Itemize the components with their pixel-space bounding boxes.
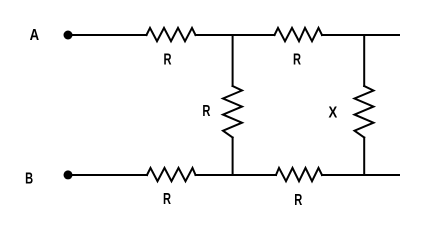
svg-text:R: R	[164, 52, 172, 69]
resistor R5 (left vertical shunt R)	[223, 86, 242, 138]
wire: bottom rail right stub	[322, 174, 399, 176]
svg-text:R: R	[202, 103, 210, 120]
svg-text:B: B	[25, 170, 33, 187]
wire: right shunt lower lead	[363, 138, 365, 176]
svg-text:R: R	[294, 192, 302, 209]
wire: bottom rail from terminal B to first resistor	[68, 174, 147, 176]
wire: left shunt upper lead	[232, 35, 234, 86]
svg-text:A: A	[30, 27, 40, 44]
terminal dot B	[64, 170, 73, 179]
wire: top rail right stub	[322, 34, 399, 36]
wire: right shunt upper lead	[363, 35, 365, 86]
svg-text:R: R	[293, 51, 301, 68]
wire: top rail from terminal A to first resistor	[68, 34, 147, 36]
wire: left shunt lower lead	[232, 138, 234, 176]
resistor R6 (right vertical shunt X)	[355, 86, 374, 138]
resistor R1 (top left horizontal)	[147, 28, 196, 41]
resistor R2 (top right horizontal)	[275, 28, 323, 41]
terminal dot A	[64, 31, 73, 40]
svg-text:R: R	[163, 191, 171, 208]
resistor R4 (bottom right horizontal)	[276, 168, 322, 181]
wire: bottom rail between R3 and R4	[196, 174, 277, 176]
wire: top rail between R1 and R2	[196, 34, 275, 36]
svg-text:X: X	[328, 104, 337, 121]
resistor R3 (bottom left horizontal)	[147, 168, 196, 181]
